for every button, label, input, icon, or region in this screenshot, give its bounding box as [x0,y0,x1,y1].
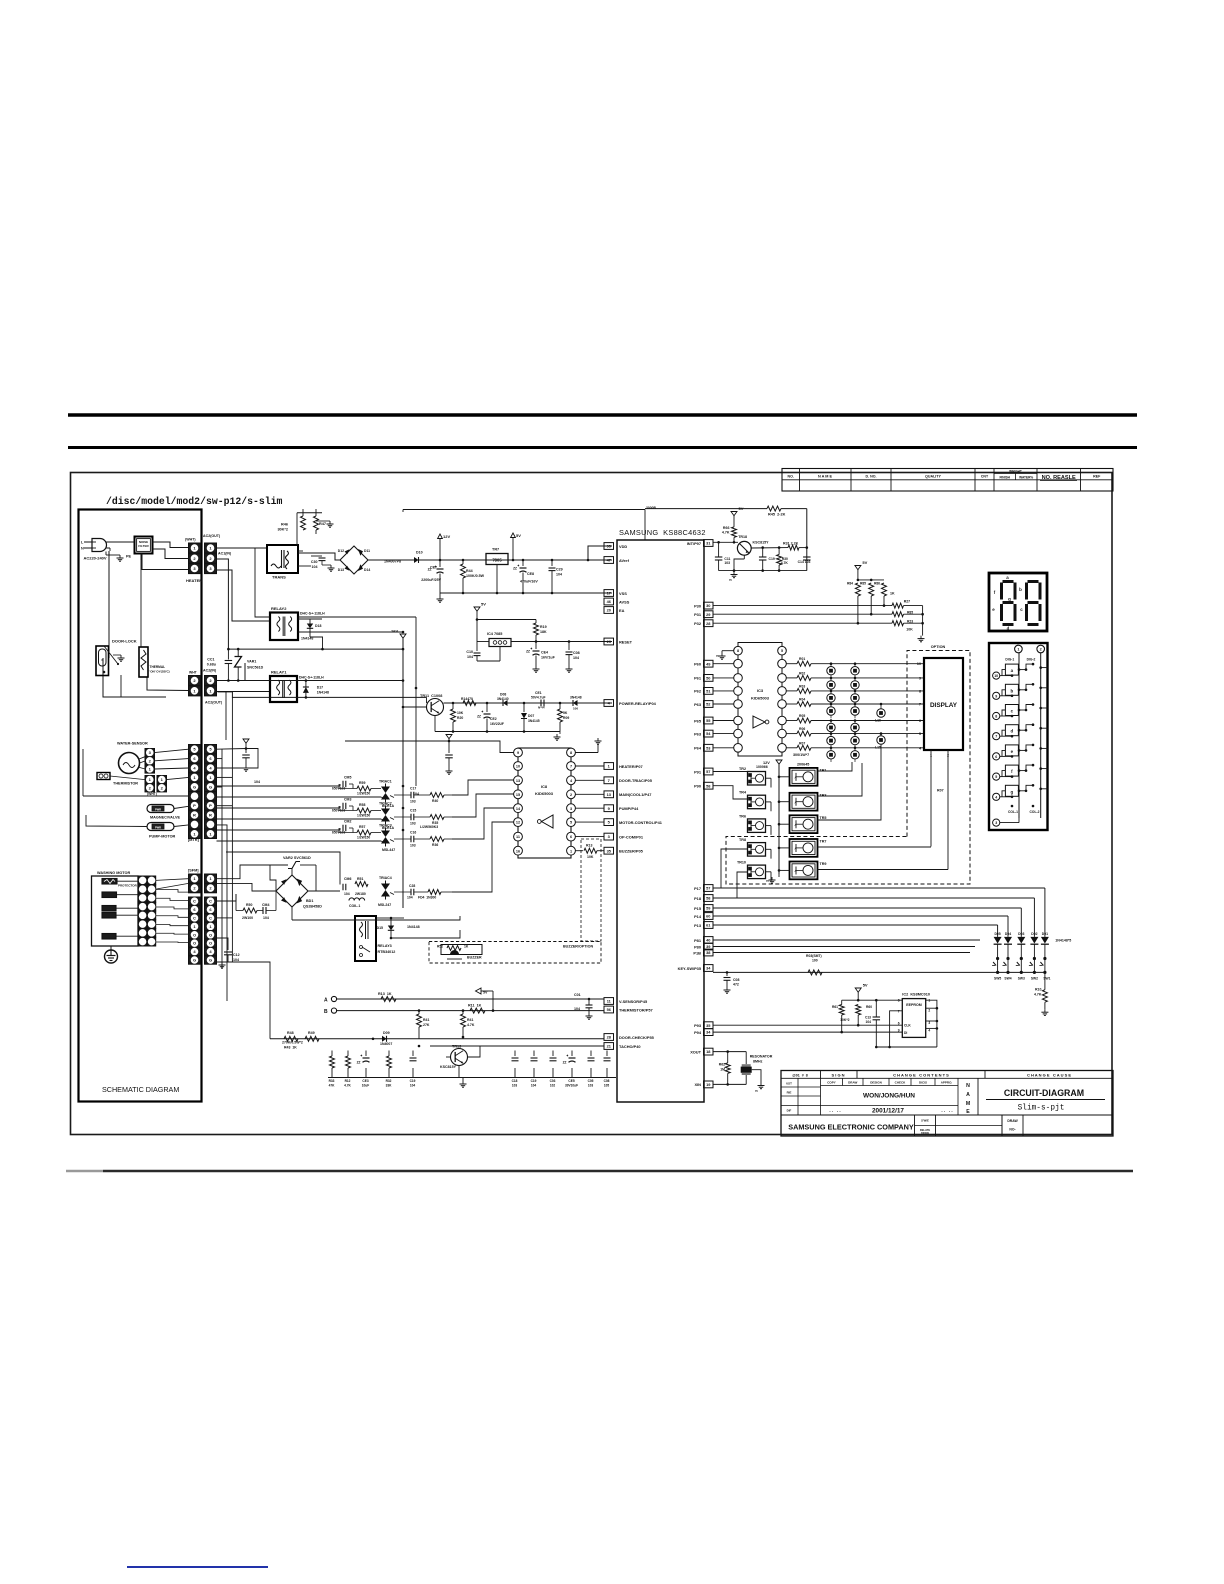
svg-text:P: P [193,803,196,808]
svg-text:R51: R51 [357,877,363,881]
svg-text:CC1: CC1 [207,658,214,662]
MCU pin 17 VSS [604,590,614,597]
svg-text:3: 3 [608,834,611,839]
connector pin circle 1 [1015,645,1023,653]
svg-text:IC4 7085: IC4 7085 [487,632,502,636]
MCU pin 51 P62 [704,688,714,695]
svg-text:R01: R01 [799,657,805,661]
svg-text:C10: C10 [466,650,473,654]
svg-text:R49: R49 [308,1031,315,1035]
svg-text:5: 5 [781,649,783,653]
svg-text:C15: C15 [410,809,416,813]
resistor R35 [414,816,430,818]
MCU pin 1 HEATER/P07 [604,763,614,770]
sign columns header [821,1085,959,1087]
svg-text:DRAW: DRAW [921,1131,929,1135]
resistor R59 [357,786,371,791]
svg-text:3N4145: 3N4145 [528,719,540,723]
motor winding 3 [102,913,116,919]
resistor R47 [315,509,317,516]
svg-text:e: e [1011,749,1014,754]
svg-text:39V10uF: 39V10uF [565,1084,578,1088]
resistor R31 2.2K [788,545,799,550]
wire heater connector pin3 [142,554,188,570]
svg-text:TRIAC2: TRIAC2 [379,802,392,806]
svg-text:PWR: PWR [155,825,161,829]
resistor R41 27K [418,1009,421,1012]
svg-text:R31 2.2K: R31 2.2K [783,542,799,546]
page top rule 1 [68,413,1137,417]
svg-text:3000B: 3000B [646,506,657,510]
wire relay3 bottom to IC [391,930,460,938]
transistor block TR1 [790,768,818,786]
motor winding 1 [102,892,117,898]
relay RELAY3 RTB34012 [355,916,376,961]
wires TR8/TR10 to key lines [721,849,748,888]
svg-text:300/1W*7: 300/1W*7 [793,753,809,757]
MCU pin 57 P91 [704,768,714,775]
svg-text:R14470: R14470 [461,697,473,701]
analog rail wires [335,1037,337,1051]
svg-text:1: 1 [570,849,572,853]
VSS ground rail [440,592,612,594]
svg-text:R57: R57 [359,825,365,829]
svg-text:C H A N G E C A U S E: C H A N G E C A U S E [1027,1073,1071,1078]
svg-text:C19: C19 [769,557,775,561]
DRAW NO cell [1002,1115,1023,1136]
svg-text:D. NO.: D. NO. [866,475,877,479]
XIN line [713,1083,746,1085]
MCU pin 56 THERMISTOR/P57 [604,1006,614,1013]
svg-text:P60: P60 [694,662,701,667]
LED column 2 [851,667,859,675]
resistor R06 [786,733,797,735]
top distribution rail [303,509,404,511]
svg-text:a: a [1006,575,1009,580]
svg-text:C19: C19 [410,1079,416,1083]
svg-text:16: 16 [516,849,520,853]
MCU pin 58 P18 [704,895,714,902]
svg-text:R47: R47 [319,522,326,526]
analog rail top [328,1050,616,1052]
svg-text:15: 15 [516,793,520,797]
svg-text:[SFM]: [SFM] [188,869,199,873]
svg-text:S I G N: S I G N [831,1073,844,1078]
resistor R36 [414,838,430,840]
osc collector line [751,547,788,549]
DISPLAY bottom pin wires [930,750,932,847]
driver outputs right [818,762,853,771]
svg-text:38: 38 [706,950,711,955]
coil COIL.1 [349,898,365,901]
svg-text:3: 3 [570,807,572,811]
wire to TR11 base [403,706,427,708]
wire relay2 to bus [310,637,323,649]
bottom connector circle 3 [993,819,1000,826]
svg-text:104: 104 [344,892,350,896]
svg-text:KSC815Y: KSC815Y [753,540,770,544]
7-seg digit 1 [1003,580,1014,583]
svg-text:P80: P80 [694,944,701,949]
MCU pin 52 P63 [704,701,714,708]
svg-text:O: O [193,932,196,937]
resistor R03 [786,690,797,692]
diode D17 [303,687,309,693]
wire plug to filter [106,541,135,543]
MCU pin 30 P30 [704,602,714,609]
svg-text:KSC815Y: KSC815Y [440,1065,457,1069]
MCU pin 13 MAIN|COOL1/P47 [604,791,614,798]
capacitor C13 104 [875,1000,877,1016]
MCU pin 53 P64 [704,744,714,751]
capacitor C11 103 [718,542,720,556]
IC3 right pin [778,659,787,668]
svg-text:D10: D10 [416,551,423,555]
svg-text:L/2W560K3: L/2W560K3 [420,825,438,829]
svg-text:. . . .: . . . . [829,1108,840,1113]
svg-text:11: 11 [607,999,612,1004]
svg-text:CE3: CE3 [362,1079,368,1083]
svg-text:3N4148: 3N4148 [570,696,582,700]
svg-text:A: A [795,800,797,804]
SFM connector col2 upper [205,874,217,883]
capacitor C16 [394,838,411,840]
svg-text:ZZ: ZZ [513,567,517,571]
svg-text:/disc/model/mod2/sw-p12/s-slim: /disc/model/mod2/sw-p12/s-slim [106,496,282,507]
svg-text:61: 61 [706,923,711,928]
svg-text:RELAY2: RELAY2 [271,606,287,611]
MCU pin 57 P17 [704,885,714,892]
svg-text:CIRCUIT-DIAGRAM: CIRCUIT-DIAGRAM [1004,1088,1084,1098]
reset top rail [477,619,536,621]
title block frame [781,1071,1113,1137]
svg-text:R41: R41 [467,1018,473,1022]
resistor R23 [892,621,904,626]
magnec/valve [147,805,174,813]
wire R46/R47 top rail [297,512,322,514]
diode D09 1N4007 [382,1036,387,1042]
MCU pin 34 KEY-SW/P35 [704,965,714,972]
svg-text:d: d [1007,626,1010,631]
svg-text:1N4148: 1N4148 [317,691,329,695]
resistor R04 [786,703,797,705]
svg-text:ZZ: ZZ [357,1061,361,1065]
IC3 left pin [734,716,743,725]
svg-text:472: 472 [733,983,739,987]
IC8 pin 4 [567,776,576,785]
svg-text:9: 9 [995,694,997,698]
svg-text:200645: 200645 [797,763,809,767]
svg-text:10: 10 [516,765,520,769]
svg-text:KID65003: KID65003 [751,696,770,701]
svg-text:R45 2-2K: R45 2-2K [768,513,786,517]
wire AC2(IN) bus [217,663,246,681]
resonator ground leg [752,1070,761,1083]
washing motor connector strip B [148,876,156,885]
svg-text:a: a [1011,668,1014,673]
wire thermal top [140,554,142,648]
MCU pin 54 P63 [704,730,714,737]
svg-text:C01: C01 [574,993,581,997]
MCU body [617,540,704,1102]
buzzer element [450,950,459,955]
svg-text:SAMSUNG KS88C4632: SAMSUNG KS88C4632 [619,528,706,537]
ground near door-lock [113,654,121,656]
capacitor C19 104 [412,1051,414,1057]
MCU pin 11 V-SENSOR/P45 [604,998,614,1005]
MCU pin 20 EA [604,607,614,614]
svg-text:MOTOR-CONTROL/P41: MOTOR-CONTROL/P41 [619,820,663,825]
MCU pin 35 P93 [704,1022,714,1029]
connector pin circle 2 [1037,645,1045,653]
svg-text:QS2B458D: QS2B458D [303,905,322,909]
5V antenna reset [474,607,480,611]
svg-text:7: 7 [608,778,610,783]
segment row g [993,793,1000,800]
svg-text:SW3: SW3 [1018,977,1025,981]
svg-text:DISPLAY: DISPLAY [930,702,958,709]
MCU pin 7 DOOR-TRIAC/P05 [604,777,614,784]
MCU pin 23 RESET [604,638,614,645]
AC bus rail lower (relay1 row) [218,680,403,682]
transistor block TR5 [790,815,818,833]
svg-text:CM5: CM5 [344,776,351,780]
svg-text:R04: R04 [799,698,805,702]
MCU pin 46 AVSS [604,598,614,605]
washing motor connector strip A [139,876,147,885]
gate bus junctions [402,785,405,788]
IC8 pin 6 [567,832,576,841]
svg-text:COPY: COPY [827,1081,836,1085]
LED L16 [877,709,885,717]
svg-text:3: 3 [995,821,997,825]
MCU pin 5 MOTOR-CONTROL/P41 [604,819,614,826]
svg-text:A: A [795,847,797,851]
schematic diagram sub-frame (left box) [79,510,202,1102]
svg-text:8: 8 [919,689,921,693]
transistor block TR3 [790,793,818,811]
svg-text:L16: L16 [875,719,881,723]
title block sign rows [781,1114,1113,1116]
svg-text:B: B [324,1009,328,1015]
svg-text:C12: C12 [233,953,240,957]
svg-text:R02: R02 [799,671,805,675]
svg-text:R27: R27 [904,600,910,604]
svg-text:7: 7 [995,735,997,739]
svg-text:CE2: CE2 [490,717,497,721]
svg-text:G: G [193,958,196,963]
svg-text:R85: R85 [860,582,866,586]
svg-text:R41: R41 [423,1018,429,1022]
resistor R01 [786,663,797,665]
svg-text:OPTION: OPTION [931,645,946,649]
svg-text:17: 17 [607,591,611,596]
svg-text:4: 4 [995,795,997,799]
driver ground [778,874,780,877]
svg-text:470uF/16V: 470uF/16V [520,580,538,584]
svg-text:TR2: TR2 [739,767,746,771]
svg-text:AC2(IN): AC2(IN) [203,669,217,673]
5V antenna eeprom [855,988,861,992]
svg-text:103: 103 [724,561,730,565]
svg-text:104: 104 [233,958,239,962]
svg-text:P1B: P1B [693,950,701,955]
svg-text:7805: 7805 [492,558,502,563]
svg-text:f: f [1011,769,1013,774]
capacitor C08 105 [606,1051,608,1057]
svg-text:104: 104 [254,780,260,784]
page top rule 2 [68,446,1137,449]
IC8 pin 16 [514,846,523,855]
svg-text:CNT: CNT [981,475,989,479]
svg-text:PUMP-MOTOR: PUMP-MOTOR [149,835,176,839]
MCU pin 34 P94 [704,1029,714,1036]
svg-text:40: 40 [706,938,710,943]
resistor R42 4.7K [462,1009,465,1012]
svg-text:47K: 47K [329,1084,336,1088]
svg-text:D11: D11 [364,549,370,553]
svg-text:R03(SMT): R03(SMT) [806,954,822,958]
earth symbol [110,946,112,950]
svg-text:SW4: SW4 [1004,977,1011,981]
svg-text:C08: C08 [573,651,580,655]
svg-text:50: 50 [706,676,710,681]
svg-text:104: 104 [413,792,419,796]
svg-text:SAMSUNG ELECTRONIC COMPANY: SAMSUNG ELECTRONIC COMPANY [788,1123,914,1132]
svg-text:100K/0.5W: 100K/0.5W [466,574,485,578]
capacitor CE2 16V22uF [486,702,489,705]
svg-text:11: 11 [516,835,520,839]
svg-text:NO-: NO- [1009,1128,1015,1132]
svg-text:C16: C16 [410,831,416,835]
SFM connector col1 lower [189,897,201,905]
svg-text:C08: C08 [604,1079,610,1083]
capacitor C10 104 [476,647,478,651]
svg-text:18K: 18K [540,630,547,634]
svg-text:RTB34012: RTB34012 [378,950,396,954]
svg-text:MSL447: MSL447 [382,848,395,852]
small cells in company row [915,1115,936,1136]
svg-text:AC1(IN): AC1(IN) [218,552,232,556]
svg-text:R05: R05 [799,714,805,718]
MCU pin 59 P15 [704,905,714,912]
capacitor CE8 470uF/16V [522,560,524,566]
segment row d [993,733,1000,740]
transistor block TR7 [790,839,818,857]
PE ground [105,552,107,556]
svg-text:CE4: CE4 [541,651,548,655]
svg-text:10K: 10K [587,855,594,859]
svg-text:ZZ: ZZ [563,1061,567,1065]
svg-text:R46: R46 [281,523,288,527]
osc right edge [806,509,808,571]
svg-text:G: G [209,958,212,963]
capacitor C15 [394,816,411,818]
driver wires from MCU [713,771,748,773]
svg-text:HEATER/P07: HEATER/P07 [619,764,643,769]
svg-text:104: 104 [263,916,269,920]
wires SFM to BD1 [217,865,271,879]
revision table (NO/NAME/D.NO/QUALITY header) [782,469,1113,492]
svg-text:35: 35 [607,848,612,853]
svg-text:O: O [209,932,212,937]
svg-text:DRAW: DRAW [848,1081,857,1085]
svg-text:D15: D15 [377,926,383,930]
MCU pin 47 AVref [604,557,614,564]
svg-text:9: 9 [919,676,921,680]
eeprom right bus [926,1000,937,1047]
wires motor to SFM [156,879,189,881]
svg-text:104: 104 [556,573,562,577]
7-segment display icon frame [989,573,1047,631]
svg-text:R07: R07 [799,741,805,745]
wire relay2 left [217,548,271,617]
SFM connector col1 upper [189,874,201,883]
svg-text:R61: R61 [832,1005,838,1009]
svg-text:V-SENSOR/P45: V-SENSOR/P45 [619,999,648,1004]
svg-text:10K*2: 10K*2 [840,1018,850,1022]
svg-text:CM3: CM3 [344,798,351,802]
wire AC1 to trans [217,547,268,549]
connector bus lines [1018,653,1020,818]
svg-text:THERMAL: THERMAL [150,665,166,669]
svg-text:XIN: XIN [695,1082,702,1087]
svg-text:8: 8 [995,715,997,719]
svg-text:APPRO.: APPRO. [941,1081,953,1085]
wires valve/pump to MTR [174,806,189,808]
svg-text:C H A N G E C O N T E N T S: C H A N G E C O N T E N T S [893,1073,949,1078]
display connector block frame [989,643,1048,830]
svg-text:DIG-2: DIG-2 [1027,658,1036,662]
svg-text:C: C [193,899,196,904]
svg-text:D12: D12 [338,549,344,553]
svg-text:EA: EA [619,608,625,613]
svg-text:SW5: SW5 [994,977,1001,981]
SFM connector col2 lower [205,897,217,905]
resistor R09 5K [559,702,562,705]
svg-text:106: 106 [573,707,578,711]
svg-text:QUALITY: QUALITY [925,475,941,479]
osc emitter to ground rail [743,555,745,559]
svg-text:4.7K: 4.7K [1034,993,1042,997]
svg-text:EEPROM: EEPROM [906,1003,922,1007]
capacitor C30 104 [311,555,322,557]
svg-text:WON/JONG/HUN: WON/JONG/HUN [863,1093,915,1100]
svg-text:R86: R86 [874,582,880,586]
wire filter to heater connector [153,542,189,548]
svg-text:d: d [1011,729,1014,734]
svg-text:IC2 KS8MC010: IC2 KS8MC010 [902,993,930,997]
svg-text:G: G [209,784,212,789]
svg-text:R06: R06 [799,727,805,731]
svg-text:THERMISTOR: THERMISTOR [113,782,138,786]
second 8V antenna cap near IC8 [446,735,452,739]
svg-text:1: 1 [1017,648,1019,652]
segment row c [993,712,1000,719]
svg-text:R60: R60 [866,1005,872,1009]
svg-text:270K/0.5W*2: 270K/0.5W*2 [282,1041,303,1045]
svg-text:TR3: TR3 [820,793,827,797]
IC3 left pin [734,744,743,753]
svg-text:COL-2: COL-2 [1030,810,1040,814]
resistor R20 10K [452,702,455,705]
svg-text:R84: R84 [847,582,853,586]
MCU pin 58 P90 [704,782,714,789]
svg-text:P61: P61 [694,676,702,681]
diode D15 [388,926,394,931]
wires MCU to IC3 [713,663,734,665]
IC8 pin 7 [567,762,576,771]
